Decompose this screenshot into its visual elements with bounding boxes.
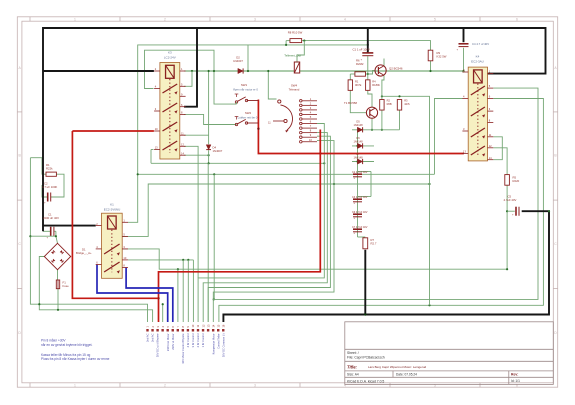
svg-text:2nd AC: 2nd AC bbox=[151, 333, 155, 342]
svg-text:File: Capri PCBalcad.sch: File: Capri PCBalcad.sch bbox=[347, 356, 385, 360]
svg-text:4 Kr Control: 4 Kr Control bbox=[186, 333, 190, 347]
svg-text:3: 3 bbox=[254, 383, 256, 387]
svg-text:R8 R10 5W: R8 R10 5W bbox=[288, 31, 303, 35]
svg-text:1N4148: 1N4148 bbox=[353, 139, 363, 143]
svg-text:4: 4 bbox=[344, 17, 346, 21]
svg-text:5: 5 bbox=[434, 17, 436, 21]
svg-text:R6B: R6B bbox=[387, 102, 392, 106]
svg-text:K32 5W: K32 5W bbox=[437, 55, 447, 59]
svg-text:30V DC Common (-): 30V DC Common (-) bbox=[221, 333, 225, 357]
svg-text:Rev:: Rev: bbox=[511, 372, 518, 376]
svg-text:0K7E: 0K7E bbox=[355, 83, 362, 87]
svg-text:Åpen når motor er 0: Åpen når motor er 0 bbox=[233, 87, 258, 92]
svg-text:K4: K4 bbox=[476, 55, 480, 59]
svg-text:Bridge_-_A+: Bridge_-_A+ bbox=[76, 251, 92, 255]
svg-text:Kassa teller får Minus fra pin: Kassa teller får Minus fra pin 15 og bbox=[41, 353, 90, 357]
svg-text:EC2-3AU: EC2-3AU bbox=[471, 60, 484, 64]
svg-text:2 Kr Control: 2 Kr Control bbox=[196, 333, 200, 347]
svg-text:Control Teller: Control Teller bbox=[216, 333, 220, 348]
svg-text:1N4148: 1N4148 bbox=[353, 155, 363, 159]
svg-text:Tellerent_Out: Tellerent_Out bbox=[284, 54, 301, 58]
svg-text:Lars Berg Capri Wipermot Motor: Lars Berg Capri Wipermot Motor: Leingeru… bbox=[368, 365, 427, 369]
svg-text:Pin 8 måler +30V: Pin 8 måler +30V bbox=[41, 338, 66, 342]
svg-text:1N4007: 1N4007 bbox=[233, 59, 243, 63]
svg-text:4.7uF 40V: 4.7uF 40V bbox=[504, 198, 517, 202]
svg-text:2nd AC: 2nd AC bbox=[146, 333, 150, 342]
svg-text:427k: 427k bbox=[404, 102, 410, 106]
svg-text:30V Motor Control Brytere: 30V Motor Control Brytere bbox=[181, 333, 185, 364]
svg-text:R220: R220 bbox=[513, 179, 520, 183]
svg-text:1N4148: 1N4148 bbox=[353, 123, 363, 127]
svg-text:T1 BC558: T1 BC558 bbox=[344, 101, 357, 105]
svg-text:LC2-24V: LC2-24V bbox=[164, 56, 176, 60]
svg-text:Q2 BC546: Q2 BC546 bbox=[389, 67, 403, 71]
svg-text:3: 3 bbox=[254, 17, 256, 21]
svg-text:Lukker rett før 0: Lukker rett før 0 bbox=[238, 116, 258, 120]
svg-text:R22k: R22k bbox=[46, 167, 53, 171]
svg-text:C3 4.7uF 40V: C3 4.7uF 40V bbox=[352, 196, 368, 199]
svg-text:Sheet: /: Sheet: / bbox=[347, 351, 359, 355]
svg-text:KiCad E.D.A. kicad 7.0.5: KiCad E.D.A. kicad 7.0.5 bbox=[347, 379, 384, 383]
svg-text:Komperatur Motor: Komperatur Motor bbox=[211, 333, 215, 354]
svg-text:R180b: R180b bbox=[372, 83, 380, 87]
svg-text:30V DC ut til Brytere: 30V DC ut til Brytere bbox=[156, 333, 160, 357]
svg-text:Title:: Title: bbox=[347, 364, 358, 369]
svg-text:Date: 07.05.24: Date: 07.05.24 bbox=[396, 373, 417, 377]
svg-text:K3: K3 bbox=[168, 51, 172, 55]
svg-text:Telerand: Telerand bbox=[289, 88, 300, 92]
svg-text:Pluss fra pin 8 når Kassa bryt: Pluss fra pin 8 når Kassa bryter i duren… bbox=[41, 357, 110, 361]
svg-text:C4 4.7 uf 40V: C4 4.7 uf 40V bbox=[472, 42, 489, 46]
svg-text:Size: A4: Size: A4 bbox=[347, 373, 359, 377]
svg-text:2: 2 bbox=[164, 17, 166, 21]
svg-text:1: 1 bbox=[74, 383, 76, 387]
svg-text:1N4007: 1N4007 bbox=[213, 149, 223, 153]
svg-text:C2 4.7uF 40V: C2 4.7uF 40V bbox=[352, 171, 368, 174]
svg-text:R2.7: R2.7 bbox=[371, 242, 377, 246]
svg-text:230V ut Motor: 230V ut Motor bbox=[171, 333, 175, 349]
svg-text:3 Kr Control: 3 Kr Control bbox=[191, 333, 195, 347]
svg-text:når en av gen/rat brytene blir: når en av gen/rat brytene blir trigget. bbox=[41, 343, 92, 347]
svg-text:Fuse: Fuse bbox=[63, 284, 70, 288]
svg-text:2200 uF 40V: 2200 uF 40V bbox=[43, 216, 59, 220]
svg-text:Id: 1/1: Id: 1/1 bbox=[511, 379, 520, 383]
svg-text:C1 1 uF 100V: C1 1 uF 100V bbox=[353, 47, 370, 51]
svg-text:R2M2: R2M2 bbox=[356, 62, 364, 66]
svg-text:1 Kr Control: 1 Kr Control bbox=[201, 333, 205, 347]
svg-text:SW1: SW1 bbox=[241, 83, 248, 87]
svg-text:C7 4.7uF 40V: C7 4.7uF 40V bbox=[352, 226, 368, 229]
svg-text:6: 6 bbox=[516, 17, 518, 21]
svg-text:C6 4.7uF 40V: C6 4.7uF 40V bbox=[352, 211, 368, 214]
svg-text:K1: K1 bbox=[110, 202, 114, 206]
svg-text:2: 2 bbox=[164, 383, 166, 387]
svg-text:230V inn Motor: 230V inn Motor bbox=[166, 333, 170, 351]
svg-text:EC2-2V6NU: EC2-2V6NU bbox=[104, 207, 121, 211]
svg-text:SW2: SW2 bbox=[245, 111, 252, 115]
svg-text:1: 1 bbox=[74, 17, 76, 21]
svg-text:4.7 uF 100K: 4.7 uF 100K bbox=[42, 185, 57, 189]
